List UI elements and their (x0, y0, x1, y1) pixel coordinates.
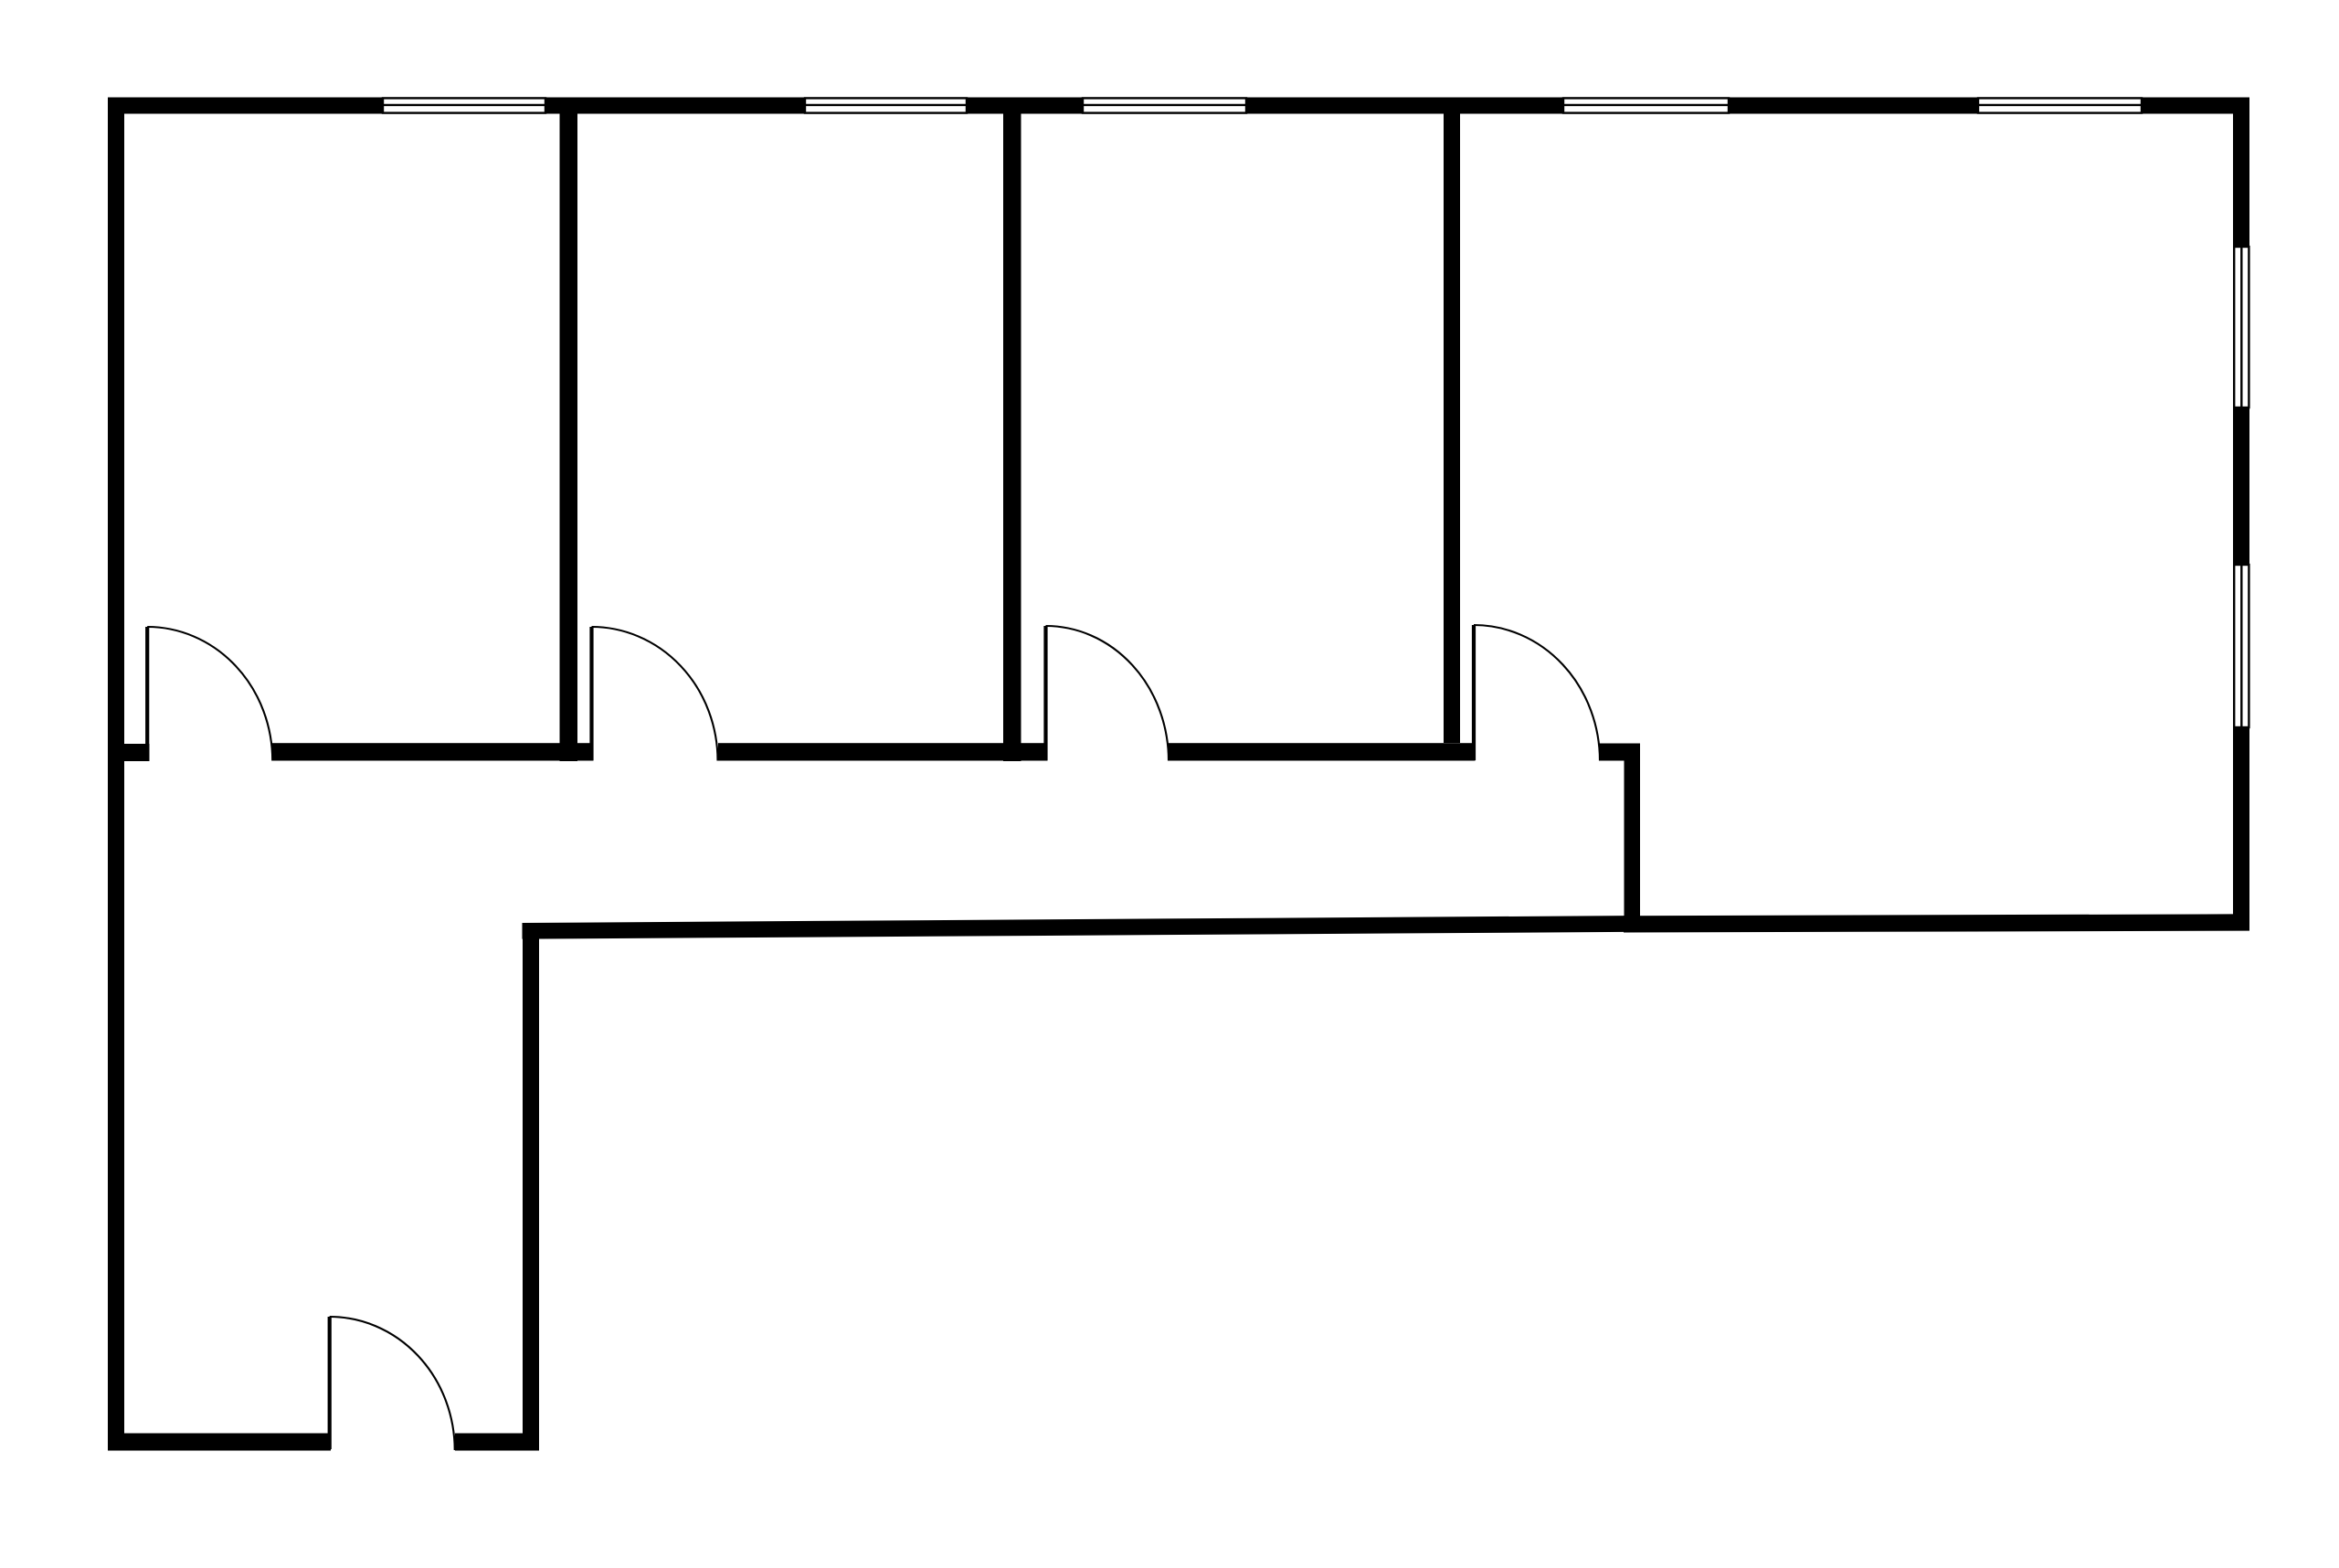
wall stub right of door D4 (S5) (1599, 744, 1640, 761)
door D3 leaf (1043, 626, 1047, 760)
wall C (room3/room4 partition) (1444, 113, 1460, 743)
entry room bottom wall left of door D5 (108, 1434, 331, 1451)
window W7 (right wall lower) (2234, 565, 2249, 727)
wall segment room2 bottom (S3) (718, 743, 1048, 760)
window W3 (top wall) (1083, 98, 1246, 112)
wall segment room3 bottom (S4) (1169, 743, 1476, 760)
corridor end vertical wall (1625, 749, 1641, 927)
wall stub left of door D1 (124, 744, 150, 761)
entry room bottom wall right of door D5 (455, 1434, 539, 1451)
window W4 (top wall) (1563, 98, 1729, 112)
room4 bottom wall (1624, 914, 2249, 932)
window W5 (top wall) (1978, 98, 2142, 112)
door D4 swing arc (1474, 625, 1600, 761)
door D3 swing arc (1046, 626, 1169, 761)
window W1 (top wall) (383, 98, 545, 112)
door D1 leaf (145, 627, 149, 760)
door D2 swing arc (592, 627, 718, 761)
wall A (room1/room2 partition) (560, 113, 578, 761)
door D5 swing arc (330, 1317, 455, 1450)
door D2 leaf (589, 627, 593, 760)
door D5 leaf (328, 1317, 332, 1449)
wall right (exterior) (2233, 98, 2249, 931)
entry room right wall (523, 923, 539, 1451)
wall B (room2/room3 partition) (1003, 113, 1021, 761)
wall top (exterior) (108, 98, 2249, 114)
door D4 leaf (1472, 625, 1476, 760)
window W2 (top wall) (805, 98, 967, 112)
wall segment room1 bottom (S2) (272, 743, 594, 760)
corridor bottom wall (523, 916, 1641, 939)
wall left (exterior) (108, 98, 124, 1451)
window W6 (right wall upper) (2234, 247, 2249, 408)
door D1 swing arc (147, 627, 272, 761)
